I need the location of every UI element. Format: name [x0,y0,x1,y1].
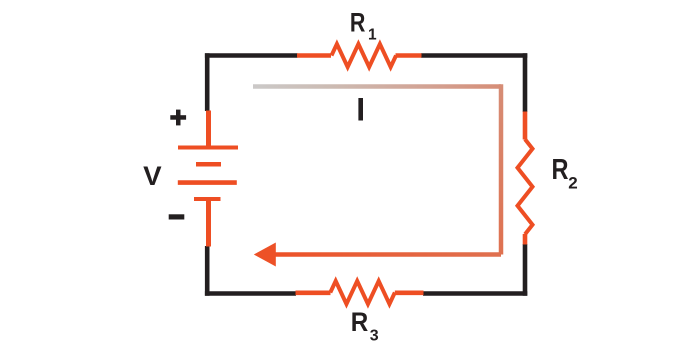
resistor R3 lead right (orange) [395,290,424,295]
svg-text:3: 3 [370,327,379,344]
battery V short plate 1 [196,162,221,167]
wire bottom-right (black) [423,291,527,296]
wire top-left (black) [205,53,298,58]
current loop arrowhead [254,243,276,267]
svg-text:1: 1 [368,26,377,43]
battery V long plate 1 [178,146,238,150]
svg-text:V: V [143,161,162,191]
resistor R2 lead top (orange) [523,112,528,140]
resistor R1 lead right (orange) [396,53,422,58]
label plus sign [170,110,186,126]
resistor R2 zigzag [518,139,533,234]
wire left lower (black) [205,246,210,296]
current loop top segment (gradient gray to salmon) [253,84,501,89]
battery V negative stub (orange) [206,199,211,247]
svg-text:R: R [552,154,569,186]
resistor R2 lead bottom (orange) [523,234,528,245]
label minus sign [169,214,185,219]
resistor R1 zigzag [332,44,397,67]
battery V long plate 2 [178,180,237,185]
resistor R3 zigzag [330,281,395,304]
svg-text:R: R [350,7,366,37]
wire left upper (black) [205,53,210,111]
resistor R1 lead left (orange) [297,53,331,58]
svg-text:I: I [356,92,365,128]
current loop right segment [499,84,504,254]
current loop bottom segment [274,252,501,257]
wire right upper (black) [523,53,528,112]
resistor R3 lead left (orange) [296,290,331,295]
wire top-right (black) [421,53,527,58]
battery V short plate 2 [194,197,221,201]
battery V positive stub (orange) [206,111,211,148]
svg-text:2: 2 [568,173,577,192]
wire bottom-left (black) [205,291,296,296]
svg-text:R: R [351,307,369,337]
wire right lower (black) [523,244,528,296]
